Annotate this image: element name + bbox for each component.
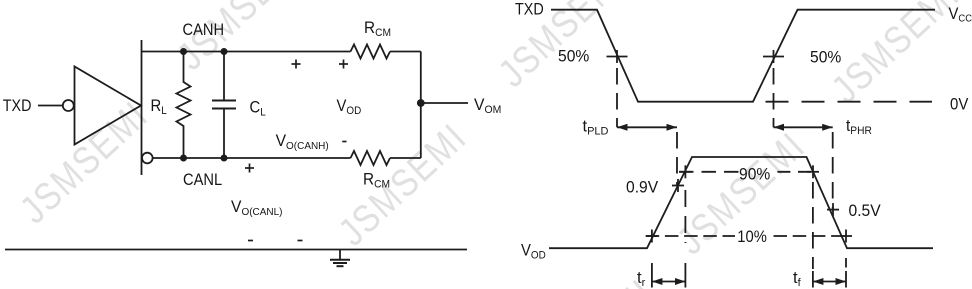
dashed vertical tPLD end to 0.9V cross [676,132,678,186]
wire VOM output [421,102,468,104]
dashed above tf right tick [845,258,847,268]
svg-text:CL: CL [250,99,266,119]
svg-text:JSMSEMI: JSMSEMI [823,0,968,111]
dashed vertical at tPHR start [773,68,775,127]
cross VOD rising 0.9V [672,185,684,187]
svg-text:tf: tf [793,269,802,289]
10% dashed line right [774,235,847,237]
node CANL-CL [221,155,228,162]
cross VOD rising 10% [646,235,658,237]
minus VO(CANH) [298,240,303,242]
node CANH-RL [180,48,187,55]
svg-text:90%: 90% [739,165,770,184]
svg-text:0V: 0V [950,96,969,114]
ground rail [5,249,467,251]
node CANL-RL [180,155,187,162]
cross VOD falling 90% [807,171,819,173]
arrow tr [652,281,686,283]
device edge bus [141,40,143,175]
wire CANH right [390,51,421,53]
svg-text:VOD: VOD [337,97,362,117]
minus VOD [342,141,346,143]
inverter input bubble [63,100,74,111]
driver U1 triangle [75,67,142,145]
capacitor CL plates [212,100,236,102]
svg-text:10%: 10% [737,228,767,246]
cross VOD rising 90% [679,171,691,173]
plus VO(CANL) [245,167,254,169]
CANL output bubble [142,153,153,164]
capacitor CL leads [223,52,225,101]
resistor RCM bottom [351,151,391,165]
svg-text:CANL: CANL [183,171,222,189]
svg-text:RCM: RCM [364,20,391,40]
VOD waveform [549,157,933,248]
svg-text:50%: 50% [810,48,841,67]
dashed vertical 90% rising to tr [684,190,686,243]
TXD waveform [551,10,935,102]
plus VO(CANH) [292,63,301,65]
svg-text:RL: RL [151,97,167,117]
tick tf right [845,271,847,288]
plus VOD [339,63,348,65]
svg-text:tPLD: tPLD [583,118,609,138]
node CANH-CL [221,48,228,55]
junction dots [180,48,425,162]
svg-text:50%: 50% [558,47,589,66]
10% dashed line left [646,235,735,237]
svg-text:tr: tr [637,269,646,289]
tick tr right [684,263,686,288]
wire CANH [142,51,351,53]
svg-text:JSMSEMI: JSMSEMI [330,114,475,254]
svg-text:VO(CANH): VO(CANH) [276,132,329,153]
wire TXD input [38,105,63,107]
0V dashed line [766,101,933,103]
polarity marks left circuit [245,60,348,241]
svg-text:VOD: VOD [521,242,546,262]
svg-text:VO(CANL): VO(CANL) [231,198,282,219]
arrow tf [813,281,846,283]
tick tr left [651,263,653,288]
svg-text:0.9V: 0.9V [626,178,658,197]
tick tf left [812,271,814,288]
wire CANL [153,157,351,159]
svg-text:TXD: TXD [3,97,32,115]
svg-text:JSMSEMI: JSMSEMI [11,92,156,232]
dashed vertical 90% falling to tf [812,182,814,269]
svg-text:TXD: TXD [515,1,544,19]
dashed vertical at tPLD start [616,68,618,127]
90% dashed line left [679,171,740,173]
wire CANL right [390,157,421,159]
arrow tPLD [617,126,677,128]
dashed vertical tPHR end to 0.5V cross [832,132,834,210]
svg-text:tPHR: tPHR [846,118,872,138]
node VOM [417,99,425,107]
90% dashed line right [777,171,812,173]
cross TXD rising 50% [763,56,784,58]
resistor RL [177,52,191,159]
cross TXD falling 50% [607,56,628,58]
arrow tPHR [774,126,833,128]
svg-text:VOM: VOM [474,96,501,117]
svg-text:CANH: CANH [183,21,225,39]
ground symbol [339,250,341,260]
resistor RCM top [351,45,391,59]
minus VO(CANL) [248,240,253,242]
wire right vertical [420,52,422,159]
cross VOD falling 0.5V [827,209,839,211]
cross VOD falling 10% [840,235,852,237]
svg-text:0.5V: 0.5V [849,201,881,220]
